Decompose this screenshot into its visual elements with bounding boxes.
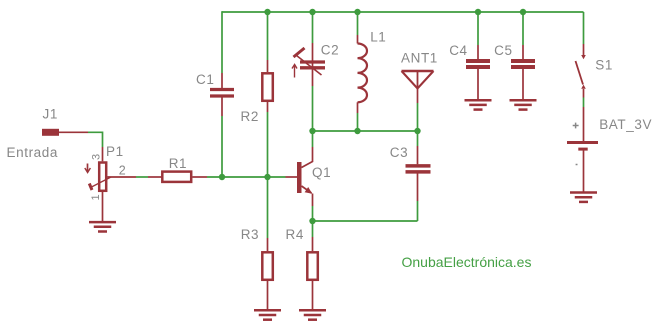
svg-text:C5: C5 [494,43,512,58]
svg-text:C1: C1 [196,72,214,87]
svg-text:R4: R4 [286,227,304,242]
svg-text:J1: J1 [43,107,58,122]
svg-text:C2: C2 [321,42,339,57]
svg-text:3: 3 [91,154,103,160]
svg-text:BAT_3V: BAT_3V [599,117,652,132]
svg-text:ANT1: ANT1 [401,51,438,66]
svg-text:1: 1 [90,194,102,200]
svg-text:Q1: Q1 [312,165,331,180]
svg-text:C3: C3 [390,145,408,160]
svg-text:L1: L1 [370,29,386,44]
svg-text:R1: R1 [169,156,187,171]
svg-text:C4: C4 [449,43,467,58]
svg-text:OnubaElectrónica.es: OnubaElectrónica.es [402,254,532,270]
svg-text:R3: R3 [241,227,259,242]
svg-text:Entrada: Entrada [7,145,58,160]
svg-text:2: 2 [119,163,126,177]
svg-text:R2: R2 [241,109,259,124]
svg-text:S1: S1 [595,57,613,72]
svg-text:P1: P1 [106,144,124,159]
